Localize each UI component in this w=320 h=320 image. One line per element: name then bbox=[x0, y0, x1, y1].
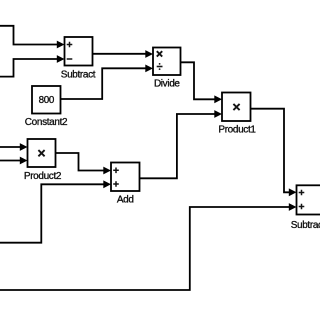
arrowhead Subtract1 input 1 bbox=[289, 188, 297, 196]
block Subtract bbox=[65, 37, 93, 66]
svg-text:Subtract1: Subtract1 bbox=[291, 220, 320, 231]
feedback wire into Add input 2 bbox=[0, 184, 107, 242]
wire into Product2 input 1 bbox=[0, 146, 23, 148]
block Product1 bbox=[222, 93, 251, 122]
svg-text:Add: Add bbox=[117, 195, 134, 206]
arrowhead Product2 input 2 bbox=[20, 157, 28, 165]
wire Constant2 to Divide bbox=[61, 68, 149, 99]
arrowhead Divide input 2 bbox=[145, 65, 153, 73]
block Subtract1 bbox=[297, 185, 320, 214]
block Product2 bbox=[28, 139, 56, 167]
block Divide bbox=[153, 48, 181, 76]
block Add bbox=[111, 163, 140, 192]
arrowhead Subtract1 input 2 bbox=[289, 203, 297, 211]
wire Product2 to Add bbox=[56, 153, 107, 171]
wire Subtract to Divide bbox=[93, 53, 149, 55]
svg-text:Product1: Product1 bbox=[218, 124, 256, 135]
svg-text:Product2: Product2 bbox=[24, 171, 62, 182]
arrowhead Add input 2 bbox=[103, 180, 111, 188]
wire Divide to Product1 bbox=[181, 62, 218, 99]
arrowhead Subtract input 2 bbox=[57, 55, 65, 63]
arrowhead Product2 input 1 bbox=[20, 143, 28, 151]
wire into Product2 input 2 bbox=[0, 160, 23, 162]
wire Add to Product1 bbox=[140, 114, 218, 178]
feedback wire into Subtract1 input 2 bbox=[0, 207, 292, 290]
wire into Subtract input 1 bbox=[0, 26, 60, 45]
arrowhead Add input 1 bbox=[103, 167, 111, 175]
arrowhead Product1 input 1 bbox=[214, 95, 222, 103]
block Constant2 bbox=[32, 86, 61, 114]
svg-text:Subtract: Subtract bbox=[61, 70, 96, 81]
wire Product1 to Subtract1 bbox=[251, 109, 293, 193]
svg-text:Constant2: Constant2 bbox=[25, 117, 68, 128]
wire into Subtract input 2 bbox=[0, 59, 60, 77]
arrowhead Subtract input 1 bbox=[57, 41, 65, 49]
arrowhead Divide input 1 bbox=[145, 50, 153, 58]
svg-text:Divide: Divide bbox=[154, 78, 180, 89]
svg-text:800: 800 bbox=[39, 95, 55, 106]
arrowhead Product1 input 2 bbox=[214, 110, 222, 118]
